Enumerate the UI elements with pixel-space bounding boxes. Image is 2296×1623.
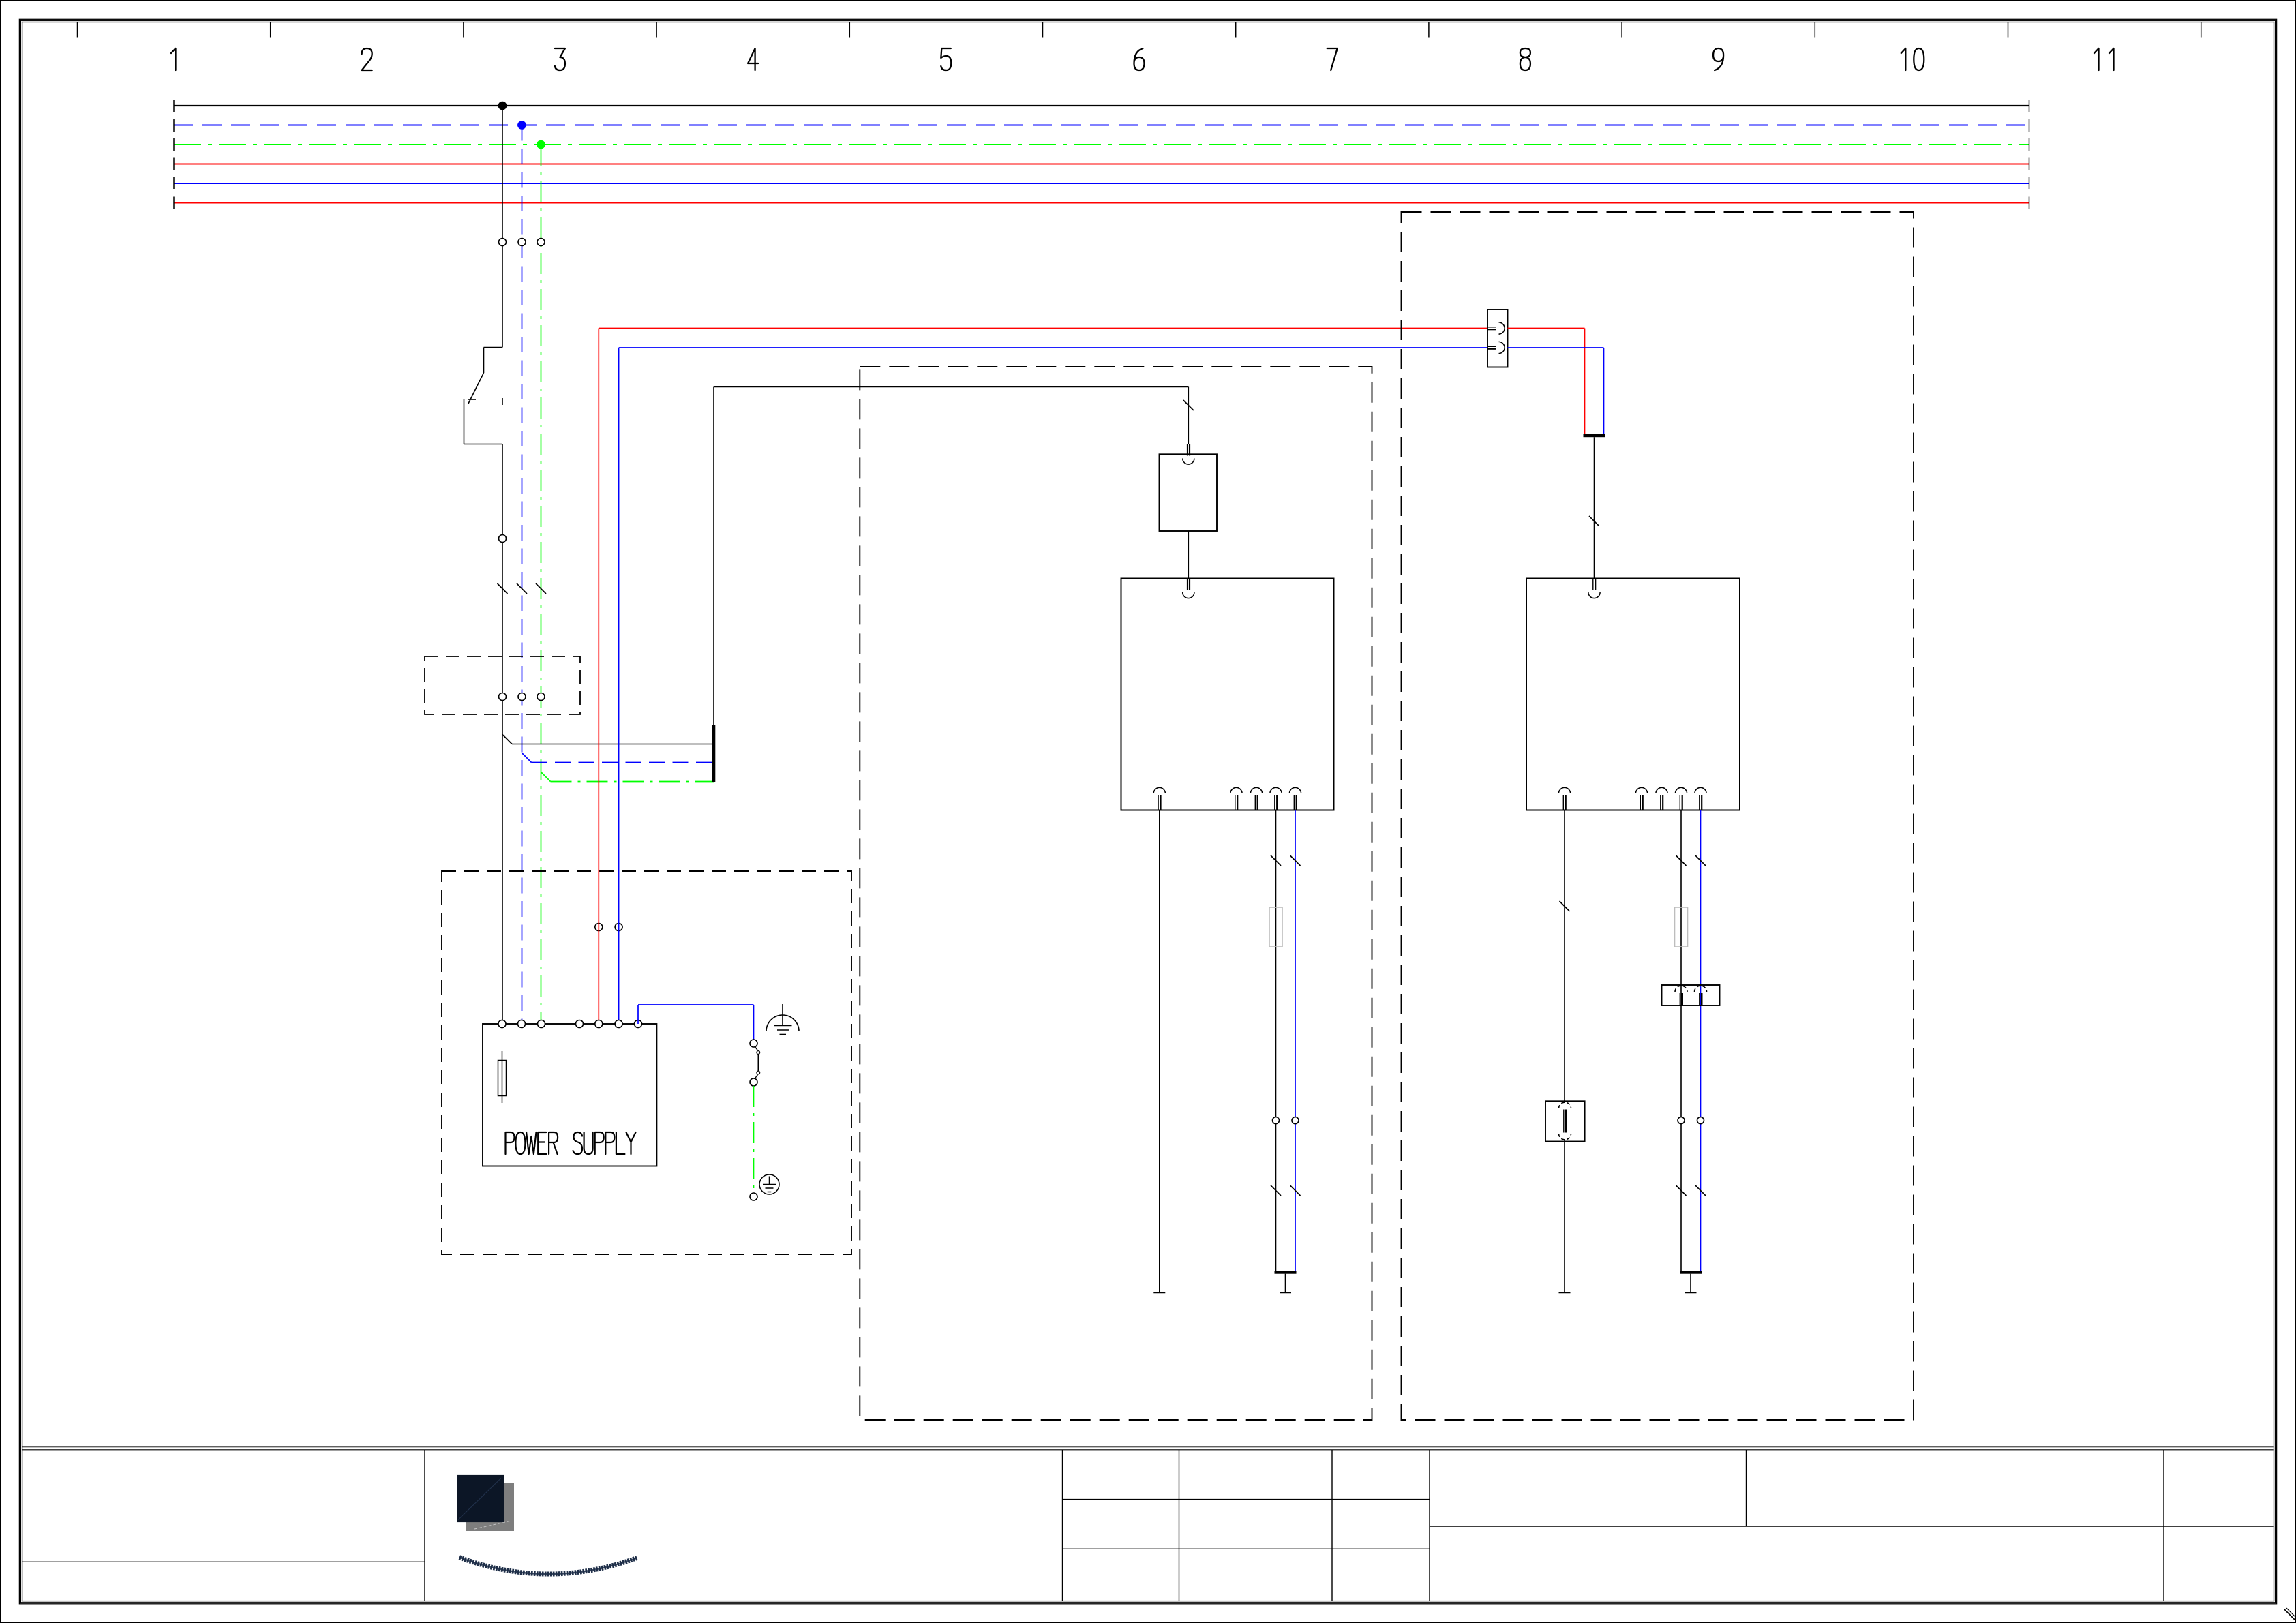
bus line 2 (blue dashed) [174, 119, 2029, 132]
connector X3 (inline plug/socket) [1545, 1101, 1585, 1141]
wire break slashes on drops [498, 583, 547, 594]
cable bar W4 [1680, 1271, 1702, 1274]
ruler column ticks [78, 22, 2201, 38]
wire PE drop (green dash-dot) [541, 145, 542, 1024]
plug circles right branch [1678, 1117, 1704, 1124]
connector circles on drops [499, 239, 545, 246]
connector X4 (two-pole box) [1662, 985, 1720, 1005]
wire A1 pin4 down (black) [1271, 810, 1281, 1271]
fuse inside power supply [498, 1051, 507, 1103]
fold mark bottom-right corner [2284, 1608, 2296, 1620]
bus line 3 (green dash-dot PE) [174, 138, 2029, 151]
title block row lines [22, 1500, 2274, 1562]
bus line 6 (red) [174, 197, 2029, 209]
bus line 4 (red) [174, 158, 2029, 170]
fuse F2 (grey body) [1675, 907, 1688, 947]
cable bar W3 [1584, 434, 1605, 437]
cable W4 tail [1685, 1274, 1697, 1293]
logo swoosh [459, 1558, 637, 1574]
connector X1 (plug box) [1160, 444, 1218, 531]
device A1 (control unit box) [1121, 579, 1334, 810]
label POWER SUPPLY [506, 1132, 636, 1154]
fuse F1 (grey body) [1269, 907, 1282, 947]
cable W2 tail [1280, 1274, 1291, 1293]
wire connector X1 to device A1 [1188, 531, 1189, 579]
plug circles mid branch [1273, 1117, 1299, 1124]
break slashes mid branch [1271, 1185, 1301, 1196]
cable bar W2 [1275, 1271, 1297, 1274]
plug circles on red/blue feed [595, 924, 622, 931]
cable riser wire to middle enclosure [714, 387, 1188, 725]
wire A2 pin4 down (black) [1676, 810, 1687, 1271]
cable bundle bar W1 [712, 725, 715, 782]
wire A1 pin5 down (blue) [1290, 810, 1301, 1271]
node L (black tap junction) [498, 102, 507, 110]
right enclosure (dashed) [1402, 212, 1914, 1420]
wire from breaker to plug circle [499, 444, 507, 1025]
power supply enclosure (dashed) [442, 871, 851, 1254]
wire red feed [599, 329, 1487, 1025]
protective earth symbol [759, 1174, 779, 1194]
wire branch N to cable (blue dashed) [522, 753, 714, 763]
connector X2 (red/blue plug box) [1487, 309, 1508, 367]
company logo squares [457, 1475, 515, 1531]
wire A1 pin1 down (black) [1153, 810, 1165, 1293]
chassis ground symbol [766, 1004, 799, 1035]
ground disconnect switch [750, 1040, 760, 1086]
wire branch PE to cable (green dash-dot) [541, 772, 714, 782]
node N (blue tap junction) [517, 121, 526, 130]
wire blue to cable bar (blue) [1508, 348, 1604, 434]
wire red to cable bar (red) [1508, 329, 1585, 435]
wire A2 pin5 down (blue) [1695, 810, 1706, 1271]
title block top separator (triple line) [22, 1446, 2274, 1450]
wire to PE terminal (green dash-dot) [750, 1086, 757, 1200]
wire down to connector X1 [1183, 387, 1194, 445]
node PE (green tap junction) [537, 140, 545, 149]
wire blue feed [619, 348, 1487, 1024]
power supply G1 box [483, 1020, 656, 1166]
title block vertical dividers [425, 1450, 2164, 1601]
wire N drop (blue dashed) [522, 125, 523, 1025]
circuit breaker (main switch) [464, 348, 503, 444]
bus line 1 (black) [174, 100, 2029, 112]
wire L drop (black) [502, 106, 503, 348]
wire A2 pin1 down (black) [1559, 810, 1571, 1293]
device A2 (drive unit box) [1526, 579, 1740, 810]
break slashes right branch [1676, 1185, 1706, 1196]
ruler column numbers 1-11 [171, 48, 2114, 70]
cable riser to device A2 [1589, 437, 1599, 578]
terminal strip (dashed box with plug circles) [425, 656, 580, 714]
middle enclosure (dashed) [860, 367, 1372, 1420]
wire branch L to cable (black) [502, 735, 714, 744]
bus line 5 (blue) [174, 177, 2029, 189]
wire PS to ground switch (blue) [638, 1005, 754, 1040]
